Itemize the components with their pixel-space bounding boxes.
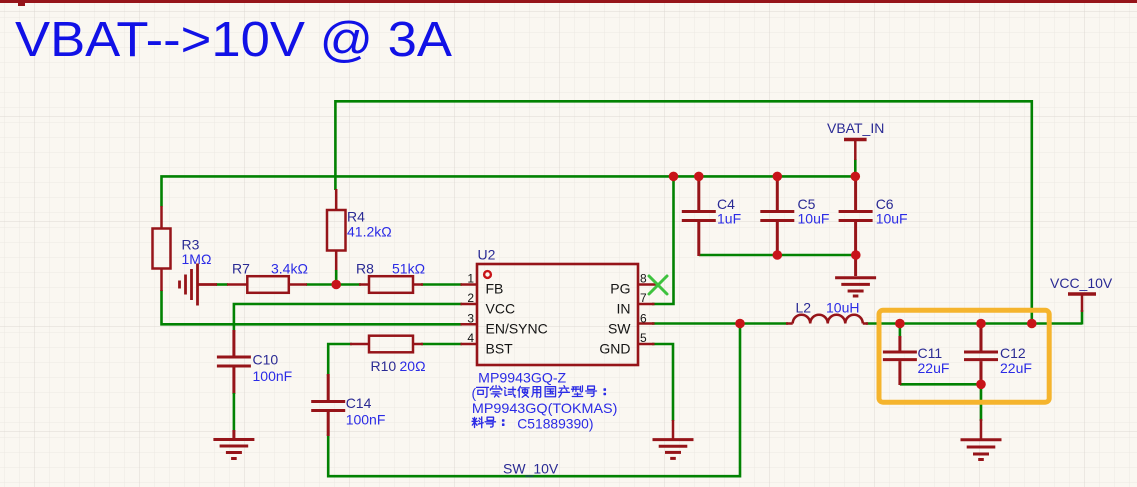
svg-text:MP9943GQ(TOKMAS): MP9943GQ(TOKMAS) bbox=[472, 401, 618, 416]
svg-text:3: 3 bbox=[467, 311, 474, 325]
capacitor C5 bbox=[760, 176, 794, 256]
resistor R4 bbox=[327, 189, 346, 271]
ground sideways (FB divider low side) bbox=[180, 264, 218, 306]
resistor R3 bbox=[153, 206, 171, 291]
capacitor C10 bbox=[217, 330, 251, 394]
wire FB row segment ground to R7 bbox=[216, 283, 228, 286]
svg-text:6: 6 bbox=[640, 311, 647, 325]
svg-text:(: ( bbox=[472, 386, 477, 401]
capacitor C4 bbox=[682, 176, 716, 256]
pin 1 stub bbox=[461, 283, 478, 286]
svg-text:C10: C10 bbox=[253, 352, 279, 368]
junction dot C12 top bbox=[976, 319, 986, 329]
junction dot C5 bottom bbox=[773, 250, 783, 260]
wire VCC row: corner above C10 to pin2 bbox=[234, 304, 462, 332]
svg-text:C14: C14 bbox=[346, 395, 372, 411]
pin 4 stub bbox=[461, 343, 478, 346]
capacitor C14 bbox=[311, 374, 345, 436]
svg-text:10uH: 10uH bbox=[826, 300, 859, 316]
wire pin7 IN riser to VBAT bus bbox=[652, 176, 674, 304]
pin1 indicator dot bbox=[484, 271, 491, 278]
junction dot C4 top bbox=[694, 172, 704, 182]
junction dot FB/R4 bbox=[331, 280, 341, 290]
svg-text:10uF: 10uF bbox=[876, 211, 908, 227]
svg-text:5: 5 bbox=[640, 331, 647, 345]
wire net VBAT bus: R3 top corner across to VBAT_IN node bbox=[162, 176, 856, 206]
svg-text:100nF: 100nF bbox=[253, 368, 293, 384]
inductor L2 bbox=[786, 315, 868, 324]
wire EN row: R3 bottom corner to pin3 bbox=[162, 290, 463, 324]
wire SW row: pin6 to L2 bbox=[652, 322, 788, 325]
junction dot C6 top VBAT bbox=[851, 172, 861, 182]
svg-text:10uF: 10uF bbox=[798, 211, 830, 227]
capacitor C12 bbox=[964, 324, 998, 386]
svg-text:20Ω: 20Ω bbox=[400, 358, 426, 374]
svg-text:U2: U2 bbox=[478, 247, 496, 263]
wire VCC_10V stub green part bbox=[1081, 310, 1084, 325]
svg-text:VCC_10V: VCC_10V bbox=[1050, 275, 1113, 291]
junction dot SW bottom riser bbox=[735, 319, 745, 329]
svg-text:VBAT-->10V @ 3A: VBAT-->10V @ 3A bbox=[15, 13, 452, 67]
wire pin5 GND drop to ground bbox=[652, 344, 673, 421]
pin 7 stub bbox=[638, 303, 655, 306]
capacitor C6 bbox=[839, 176, 873, 276]
wire net VOUT top: from R4 top across to output column bbox=[335, 101, 1031, 323]
svg-text:4: 4 bbox=[467, 331, 474, 345]
svg-text:C51889390): C51889390) bbox=[517, 417, 593, 432]
junction dot C5 top bbox=[773, 172, 783, 182]
junction dot bus pin7 bbox=[669, 172, 679, 182]
svg-text:BST: BST bbox=[486, 341, 514, 357]
resistor R8 bbox=[359, 276, 423, 293]
wire BST row: R10 right to pin4 bbox=[421, 343, 462, 346]
ground below C10 bbox=[213, 430, 254, 459]
svg-text:51kΩ: 51kΩ bbox=[392, 261, 425, 277]
no-ERC cross on pin 8 bbox=[649, 276, 667, 294]
svg-text:R7: R7 bbox=[232, 261, 250, 277]
C12 ground lead red part bbox=[980, 419, 983, 439]
svg-text:FB: FB bbox=[486, 281, 504, 297]
svg-text:IN: IN bbox=[617, 301, 631, 317]
svg-text:PG: PG bbox=[610, 281, 630, 297]
svg-text:7: 7 bbox=[640, 291, 647, 305]
highlight orange box around C11 C12 bbox=[879, 310, 1049, 402]
resistor R10 bbox=[350, 336, 423, 353]
wire C12 bottom to ground bbox=[980, 384, 983, 421]
svg-text:GND: GND bbox=[599, 341, 630, 357]
svg-text:SW_10V: SW_10V bbox=[503, 461, 559, 477]
svg-text:R10: R10 bbox=[371, 358, 397, 374]
pin 2 stub bbox=[461, 303, 478, 306]
svg-text:3.4kΩ: 3.4kΩ bbox=[271, 261, 308, 277]
wire VBAT_IN stub green part bbox=[854, 159, 857, 176]
svg-text:100nF: 100nF bbox=[346, 412, 386, 428]
wire C11 top lead upper green part bbox=[899, 324, 902, 339]
ic U2 body bbox=[477, 264, 638, 365]
svg-text:EN/SYNC: EN/SYNC bbox=[486, 321, 548, 337]
svg-text:C12: C12 bbox=[1000, 345, 1026, 361]
junction dot VOUT riser bbox=[1027, 319, 1037, 329]
svg-text:SW: SW bbox=[608, 321, 631, 337]
svg-text:8: 8 bbox=[640, 272, 647, 286]
svg-text:22uF: 22uF bbox=[918, 360, 950, 376]
wire SW row: L2 to VCC_10V stub bbox=[866, 322, 1082, 325]
junction dot C11 top bbox=[895, 319, 905, 329]
junction dot C6 bottom bbox=[851, 250, 861, 260]
wire C11 bottom to C12 bottom bbox=[900, 383, 981, 386]
sheet border tick bbox=[18, 3, 25, 6]
wire FB row segment R8 to pin1 bbox=[421, 283, 462, 286]
svg-text:41.2kΩ: 41.2kΩ bbox=[347, 224, 392, 240]
svg-text:L2: L2 bbox=[796, 300, 812, 316]
ground below C11 C12 bbox=[961, 440, 1002, 460]
capacitor C11 bbox=[883, 336, 917, 385]
svg-text:1uF: 1uF bbox=[717, 211, 741, 227]
junction dot C11 C12 bottom bbox=[976, 380, 986, 390]
pin 8 stub bbox=[638, 283, 657, 286]
svg-text:22uF: 22uF bbox=[1000, 360, 1032, 376]
wire C4 bottom bus to C6 bbox=[699, 254, 856, 257]
ground below C6 bbox=[835, 278, 876, 296]
pin 5 stub bbox=[638, 343, 655, 346]
svg-text:R8: R8 bbox=[356, 261, 374, 277]
svg-text:C11: C11 bbox=[918, 345, 943, 361]
svg-text:R4: R4 bbox=[347, 209, 365, 225]
svg-text:VCC: VCC bbox=[486, 301, 516, 317]
sheet border top edge bbox=[0, 0, 1137, 3]
svg-text:1: 1 bbox=[467, 272, 474, 286]
note line CJK: 料号：C51889390) bbox=[472, 417, 504, 428]
svg-text:2: 2 bbox=[467, 291, 474, 305]
svg-text:VBAT_IN: VBAT_IN bbox=[827, 120, 884, 136]
pin5 ground lead red part bbox=[672, 420, 675, 440]
ground below pin5 bbox=[653, 440, 694, 459]
wire SW bottom net: C14 bottom, along bottom, up to SW row bbox=[328, 324, 740, 477]
svg-text:MP9943GQ-Z: MP9943GQ-Z bbox=[478, 371, 566, 386]
wire FB row segment R7 to R8 bbox=[306, 283, 361, 286]
pin 3 stub bbox=[461, 323, 478, 326]
wire R4 bottom green part bbox=[335, 270, 338, 283]
pin 6 stub bbox=[638, 322, 655, 325]
resistor R7 bbox=[227, 276, 307, 293]
wire C10 to ground green part bbox=[233, 393, 236, 431]
wire BST row: corner above C14 to R10 left bbox=[328, 344, 352, 376]
